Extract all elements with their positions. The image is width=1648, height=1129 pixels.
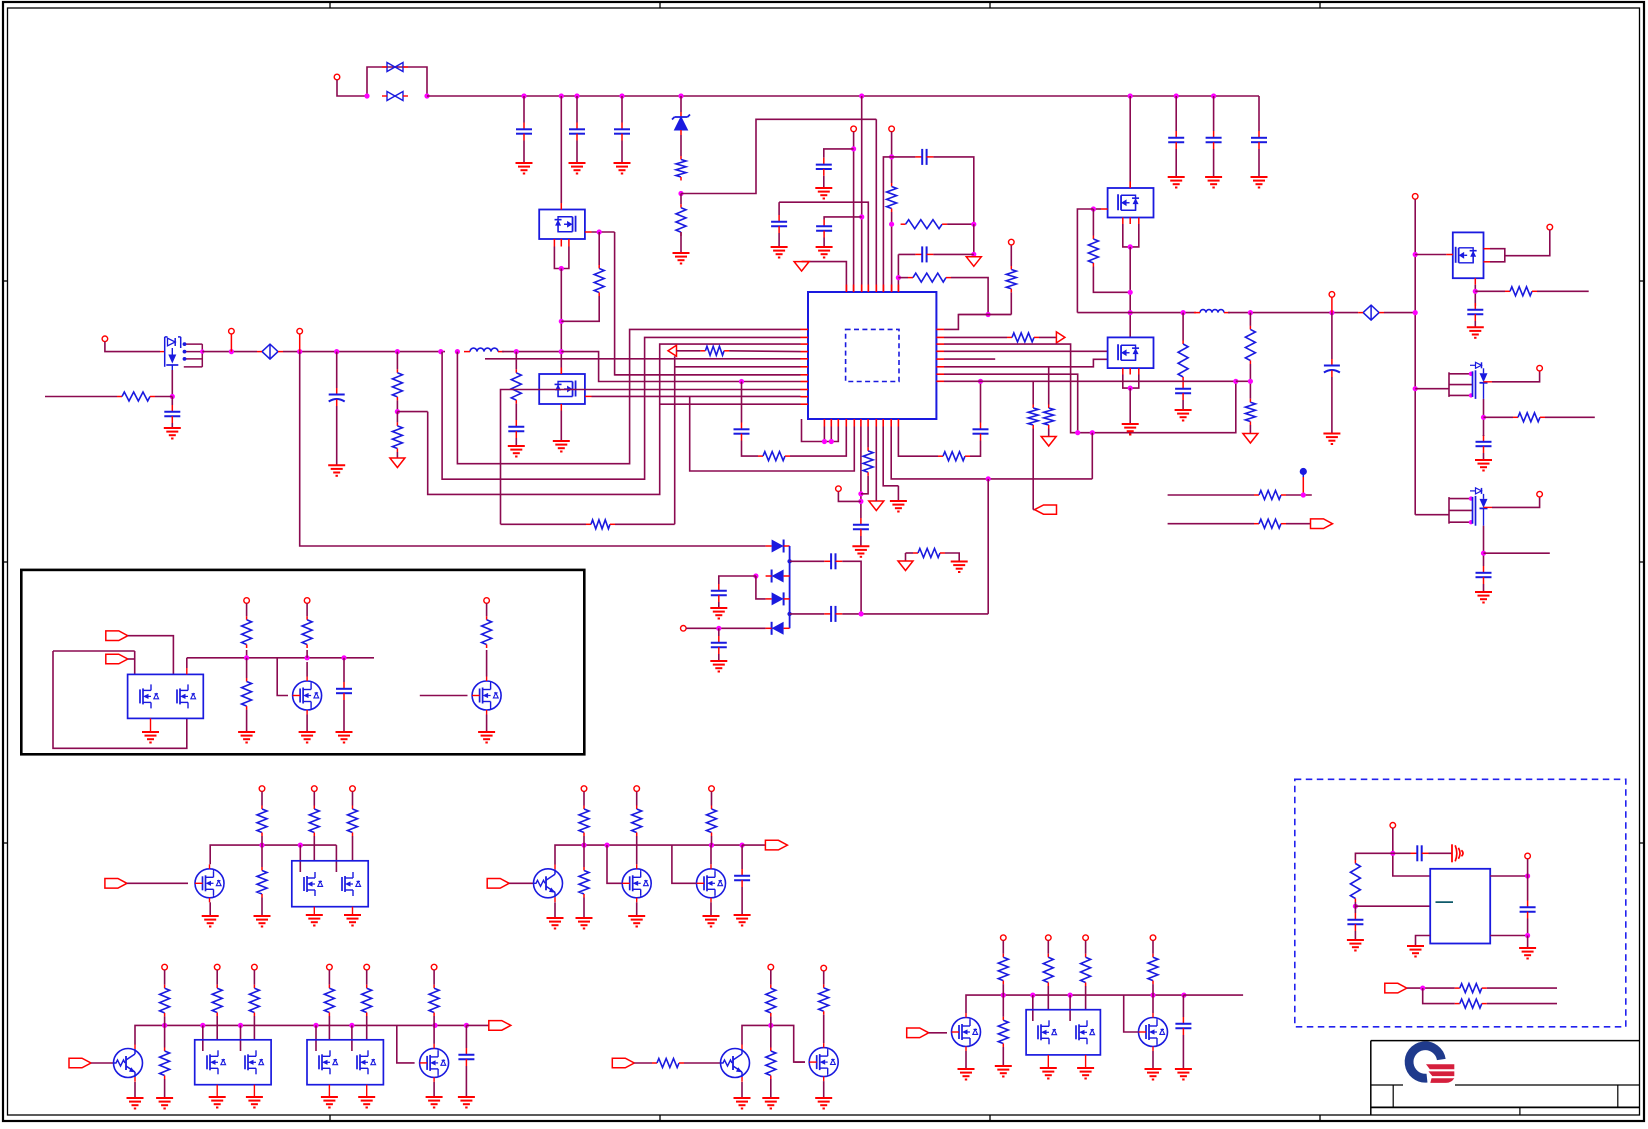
resistor R23 (1245, 326, 1255, 364)
inductor L2 (1194, 310, 1230, 313)
wire C26 top (343, 658, 345, 682)
wire R4 left (898, 277, 908, 279)
wire C31 top (1354, 906, 1356, 913)
wire cap row1 (790, 560, 825, 562)
resistor R25 (1254, 491, 1286, 500)
wire IN7 (929, 1032, 947, 1034)
wire R33 out (486, 650, 488, 677)
resistor R26 (1254, 519, 1286, 528)
wire Q8 tap (1484, 552, 1550, 554)
wire cap row1b (842, 561, 861, 614)
pin TP-V (214, 964, 220, 970)
wire C7b gnd (778, 233, 780, 247)
wire r3 gate4 (351, 1025, 353, 1051)
junction L1 out (514, 349, 519, 354)
junction r3 d (313, 1023, 318, 1028)
wire pinA down (891, 132, 893, 183)
capacitor C15 (973, 423, 989, 441)
resistor R2 (676, 204, 686, 236)
wire QC src loop (1123, 224, 1139, 247)
wire net L6 (675, 366, 801, 368)
wire R34 out (261, 840, 263, 845)
capacitor C7b (771, 215, 787, 233)
wire bus to IC top (861, 96, 863, 292)
wire R2 gnd (680, 232, 682, 253)
junction bus C3 (619, 93, 624, 98)
wire loop left (53, 650, 135, 652)
wire U2 gnd2 (1490, 935, 1527, 937)
wire IN4 (509, 882, 533, 884)
wire D3 tap (719, 576, 756, 584)
ground R2 (673, 253, 690, 264)
wire pinA down2 (891, 212, 893, 292)
wire Q11 gate (420, 695, 468, 697)
resistor R6 (117, 392, 155, 401)
zener D1 (672, 112, 690, 135)
wire tp row2 (1168, 523, 1254, 525)
pin TP-K (1537, 491, 1543, 497)
wire net R8 (944, 380, 1236, 382)
wire B2 drop (830, 427, 832, 442)
pin TP-AF (1150, 935, 1156, 941)
junction R23 (1248, 379, 1253, 384)
wire R57 lead (1152, 941, 1154, 954)
resistor R53 (998, 954, 1008, 984)
wire C12 gnd (515, 438, 517, 446)
wire R43 gnd (164, 1079, 166, 1098)
wire R3 right (947, 223, 974, 225)
wire C29 top (1182, 995, 1184, 1017)
wire capacitor C3 (621, 96, 623, 123)
wire C7c gnd (823, 238, 825, 248)
ground R51 (762, 1098, 779, 1109)
chassis ground R24 (1243, 434, 1258, 444)
wire R4 right (951, 278, 988, 315)
wire right col bus (1414, 199, 1416, 515)
ferrite bead FB2 (1358, 305, 1384, 320)
pin TP-M (304, 598, 310, 604)
ground QD (1122, 424, 1139, 435)
wire net R5 stub (944, 358, 995, 360)
resistor R42 (160, 985, 170, 1017)
wire R27 right (1537, 290, 1589, 292)
wire R46 out (328, 1016, 330, 1040)
wire capacitor C2 gnd (576, 141, 578, 164)
wire R13 to capA (742, 441, 759, 457)
wire QC gate left (1077, 209, 1093, 313)
wire QF out (1505, 230, 1550, 256)
wire R53 lead (1002, 941, 1004, 954)
chassis ground R19 (1041, 437, 1056, 447)
ground capacitor C1 (516, 163, 533, 174)
resistor R19 (1044, 405, 1054, 429)
ground C7b (771, 247, 788, 258)
junction r3c c (1068, 993, 1073, 998)
wire U2 gnd pin (1416, 936, 1431, 947)
junction Q2-R10 (559, 319, 564, 324)
junction Q2 bus (559, 349, 564, 354)
ground C10 (164, 428, 181, 439)
junction pinB cap (851, 146, 856, 151)
wire R52 lead (823, 971, 825, 985)
resistor R16 (1007, 333, 1039, 342)
pin TP-AE (1083, 935, 1089, 941)
wire gate row (45, 396, 117, 398)
junction rc M2 (1413, 386, 1418, 391)
wire capacitor C4 (1175, 96, 1177, 131)
resistor R58 (1350, 860, 1360, 902)
wire C25 top (718, 628, 720, 636)
chassis ground R29 (898, 561, 913, 571)
pin TP-J (1537, 365, 1543, 371)
resistor R17 (1028, 405, 1038, 429)
ground Q3 (553, 441, 570, 452)
wire Q9 drain up (186, 658, 188, 668)
pin TP-U (162, 964, 168, 970)
junction r3c d (1150, 993, 1155, 998)
wire long rail (300, 352, 766, 546)
ground R29 (951, 562, 968, 573)
junction U2 out (1525, 873, 1530, 878)
wire box bus (187, 657, 374, 659)
resistor R54 (998, 1017, 1008, 1047)
ground U2 (1407, 946, 1424, 957)
ground R31 (238, 732, 255, 743)
wire net L4 b (729, 350, 800, 353)
wire R55 out (1047, 986, 1049, 1010)
wire R52 lead2 (823, 1015, 825, 1020)
wire net R3 (944, 344, 1236, 433)
wire R39 gnd (583, 898, 585, 919)
resistor R56 (1081, 954, 1091, 986)
pin J3 aux (681, 626, 687, 632)
wire QC src down (1129, 247, 1131, 338)
junction aux (716, 626, 721, 631)
logo Quanta (1409, 1046, 1454, 1083)
wire capH jog (883, 157, 891, 292)
wire QD gnd (1129, 388, 1131, 424)
wire QF src (1474, 285, 1476, 306)
wire r3 gate5 (397, 1025, 415, 1063)
wire R27 left (1475, 290, 1505, 292)
ground C7 (815, 188, 832, 199)
wire hv bus (1077, 312, 1196, 314)
wire Q22 gnd (823, 1081, 825, 1098)
resistor R28 (1513, 413, 1545, 422)
wire opt vcc (1393, 828, 1430, 876)
junction pinA res (889, 222, 894, 227)
wire R37 out (352, 836, 354, 861)
wire r2b gate2 (672, 845, 697, 883)
junction r2b c (709, 843, 714, 848)
wire R40 lead2 (636, 836, 638, 840)
wire net L11 (660, 403, 800, 405)
title block (1371, 1041, 1640, 1115)
wire R8 gnd (396, 452, 398, 458)
resistor R45 (249, 985, 259, 1016)
wire C28 gnd (465, 1066, 467, 1097)
transistor Q16 (697, 864, 726, 902)
chassis ground R8 (390, 458, 405, 468)
transistor Q12 (195, 864, 224, 902)
wire R55 lead (1047, 941, 1049, 954)
wire Q25 gnd (1152, 1051, 1154, 1069)
wire R40 out (636, 840, 638, 864)
junction fuse right (424, 93, 429, 98)
wire C7 gnd (823, 176, 825, 188)
capacitor C6 (1251, 131, 1267, 149)
wire net L8 bus entry (561, 352, 800, 382)
wire C27 gnd (741, 887, 743, 915)
fuse F2 (382, 92, 408, 101)
wire Q12 drain (210, 845, 336, 864)
wire capH right (933, 157, 973, 224)
wire R8 jog (1236, 380, 1251, 382)
wire C30 right (1429, 852, 1453, 854)
wire R1 tap (681, 119, 876, 193)
wire C10 gnd (171, 423, 173, 428)
wire R41 lead (711, 791, 713, 805)
junction QC src (1128, 244, 1133, 249)
junction cap row2 (859, 611, 864, 616)
wire B10 net (891, 427, 1092, 479)
pin TP-B (851, 126, 857, 132)
wire C16 gnd (1182, 400, 1184, 410)
wire cap row2 (790, 613, 825, 615)
wire net L4 a (677, 350, 701, 352)
resistor R30 (242, 616, 252, 648)
wire Q14 gnd (554, 902, 556, 918)
dual FET box Q24 (1026, 1010, 1100, 1068)
chassis ground IC top (794, 262, 809, 272)
wire R10 lead (598, 232, 600, 265)
wire R46 lead (328, 970, 330, 985)
junction D2 cathode (787, 559, 791, 563)
wire R30 out (246, 650, 248, 658)
wire R41 out (711, 840, 713, 845)
junction bus Q-A (559, 93, 564, 98)
resistor R24 (1245, 399, 1255, 425)
resistor R34 (257, 806, 267, 837)
junction R1-R2 (678, 191, 683, 196)
wire R10 down (561, 296, 599, 321)
wire r3c gate3 (1124, 995, 1139, 1032)
ferrite bead FB1 (257, 344, 283, 359)
wire net R6 (944, 359, 1108, 367)
transistor Q15 (622, 864, 651, 902)
wire D3-D4 jog (756, 576, 766, 599)
ground Q12 (202, 916, 219, 927)
pin TP-S (634, 786, 640, 792)
wire R28 left (1484, 416, 1514, 418)
wire R51 lead (770, 1025, 772, 1047)
ground C26 (336, 732, 353, 743)
wire D2-D3 link (789, 546, 791, 628)
wire capacitor C2 (576, 96, 578, 123)
diode D4 (766, 592, 790, 605)
junction r3c b (1030, 993, 1035, 998)
capacitor C1 (516, 123, 532, 141)
wire r3c gate1 (1032, 995, 1034, 1021)
dashed option box (1295, 779, 1626, 1027)
ground Q23 (958, 1069, 975, 1080)
wire C20 gnd (1483, 453, 1485, 460)
wire R17 top (1032, 381, 1034, 404)
wire Q11 gnd (486, 715, 488, 733)
capacitor C16 (1175, 382, 1191, 400)
wire R53 out (1002, 990, 1004, 995)
pin TP-AA (768, 964, 774, 970)
pin TP-P (312, 786, 318, 792)
flag net out2 (1311, 519, 1333, 529)
junction rc QF (1413, 252, 1418, 257)
junction bus C5 (1211, 93, 1216, 98)
wire R14 lead2 (867, 476, 869, 477)
ground C14 (852, 546, 869, 557)
junction opt b (1353, 904, 1358, 909)
wire R56 lead (1085, 941, 1087, 954)
transistor Q2 buck FET (539, 203, 591, 247)
ground C7c (816, 247, 833, 258)
ground C20 (1475, 460, 1492, 471)
ground C16 (1175, 410, 1192, 421)
wire R2 lead (680, 194, 682, 205)
wire R35 gnd (261, 898, 263, 917)
ground Q24a (1040, 1068, 1057, 1079)
wire R42 lead (164, 970, 166, 985)
wire zener-R (680, 135, 682, 156)
wire R50 out (770, 1020, 772, 1025)
wire R23 lead (1249, 313, 1251, 326)
wire C21 gnd (1483, 584, 1485, 592)
pin TP-Q (350, 786, 356, 792)
junction B6 b (858, 499, 863, 504)
wire opt cap row (1393, 852, 1411, 854)
wire capI left drop (897, 254, 899, 292)
resistor R60 (1455, 999, 1487, 1008)
junction L8 capA (739, 379, 744, 384)
capacitor C13 (734, 423, 750, 441)
wire Q21 coll (742, 1025, 805, 1062)
wire R8 lead (396, 412, 398, 423)
wire aux in (686, 627, 766, 629)
wire Q7 out (1492, 371, 1540, 382)
wire R30 lead (246, 603, 248, 616)
wire row524 b (615, 523, 675, 525)
capacitor C25 (711, 636, 727, 654)
junction QC bus2 (1128, 310, 1133, 315)
wire R34 lead (261, 791, 263, 805)
wire net R7 (944, 374, 1078, 433)
pin TP-O (259, 786, 265, 792)
flag IN1 (106, 631, 128, 641)
wire IN2 (128, 658, 135, 660)
wire arrow row (802, 262, 847, 292)
transistor Q17 (114, 1044, 143, 1082)
flag IN6 (612, 1058, 634, 1068)
resistor R52 (819, 984, 829, 1014)
capacitor C32 (1520, 901, 1536, 919)
wire C23 gnd (718, 602, 720, 608)
wire net L7 row (615, 374, 801, 376)
pin TP-T (709, 786, 715, 792)
flag IN5 (69, 1058, 91, 1068)
wire R23-R24 (1249, 364, 1251, 399)
wire R14 down (861, 477, 868, 494)
resistor R39 (579, 867, 589, 898)
ground Q24b (1077, 1068, 1094, 1079)
capacitor C14 (853, 518, 869, 536)
wire r3 gate3 (315, 1025, 317, 1051)
wire R21 lead2 (1092, 267, 1094, 269)
Q8 gate bracket (1449, 496, 1473, 524)
wire Q10 gnd (306, 715, 308, 733)
wire bus to Q8 (1415, 514, 1449, 516)
ground C11 (328, 465, 345, 476)
wire capacitor C1 (523, 96, 525, 123)
wire IN1 (128, 636, 174, 675)
wire R33 lead (486, 603, 488, 616)
wire R1pin chain (1010, 292, 1012, 314)
transistor Q1 input PFET (160, 337, 181, 370)
wire IN6 b (684, 1062, 721, 1064)
wire U2 out (1490, 875, 1527, 877)
wire fuse loop (367, 67, 427, 96)
junction B10-R3 (1090, 430, 1095, 435)
wire C17 top (1331, 313, 1333, 359)
ground C27 (734, 915, 751, 926)
wire C28 top (465, 1025, 467, 1048)
diode D3 (766, 570, 790, 583)
wire r2 gate2 (335, 845, 337, 872)
wire Q22 gate (795, 1061, 805, 1063)
ground capacitor C3 (614, 163, 631, 174)
wire C20 top (1483, 435, 1485, 436)
wire C15 top (980, 381, 982, 422)
ground C32 (1519, 948, 1536, 959)
resistor R33 (482, 616, 492, 648)
junction bus D1 (678, 93, 683, 98)
wire gate jog Q10 (277, 658, 288, 696)
wire R38 lead2 (583, 836, 585, 840)
junction R4 left (896, 275, 901, 280)
wire r3 gate1 (202, 1025, 204, 1051)
wire R15 to capB (970, 441, 981, 457)
transistor Q14 (534, 865, 563, 903)
resistor R3 (901, 220, 948, 229)
flag IN2 (106, 654, 128, 664)
capacitor C26 (336, 682, 352, 700)
wire Q23 gnd (965, 1051, 967, 1069)
junction hv RC (1248, 310, 1253, 315)
wire Q16 gnd (710, 902, 712, 916)
wire TPF (838, 492, 861, 502)
resistor R43 (160, 1048, 170, 1080)
wire C11 gnd (336, 406, 338, 465)
junction hv C18 (1329, 310, 1334, 315)
wire r2b gate1 (607, 845, 622, 883)
resistor R14 (863, 447, 873, 475)
pin TP-D (229, 328, 235, 351)
wire R42 out (164, 1020, 166, 1025)
pin TP-R (581, 786, 587, 792)
junction r2b a (581, 843, 586, 848)
wire QD src loop (1123, 375, 1139, 389)
wire C7b stub (778, 202, 780, 215)
wire cap row2b (842, 613, 988, 615)
junction r3 a (162, 1023, 167, 1028)
junction bus-C7c (859, 214, 864, 219)
